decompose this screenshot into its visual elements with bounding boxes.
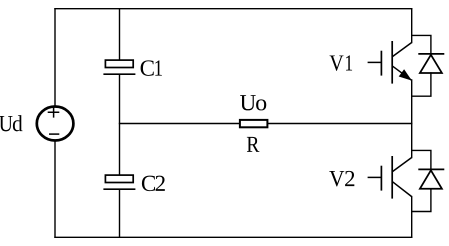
- label C1: [141, 60, 162, 75]
- capacitor C1: [103, 60, 135, 74]
- wire V1 diode branch top: [412, 35, 431, 54]
- diode of V1: [418, 54, 444, 73]
- wire V1 diode branch bottom: [412, 73, 431, 96]
- wire middle left of resistor: [120, 123, 240, 125]
- label V1: [330, 55, 353, 71]
- label Ud: [0, 115, 22, 131]
- label C2: [142, 176, 165, 191]
- transistor V2: [368, 156, 412, 199]
- label R: [247, 137, 260, 152]
- wire capacitor branch upper: [119, 9, 121, 60]
- wire left vertical lower: [54, 140, 56, 237]
- diode of V2: [418, 169, 444, 188]
- arrowhead of V1 emitter: [399, 69, 412, 80]
- wire V2 diode branch top: [412, 150, 431, 169]
- wire V2 diode branch bottom: [412, 189, 431, 212]
- wire right rail top: [411, 9, 413, 43]
- label Uo: [240, 95, 266, 110]
- transistor V1: [368, 41, 412, 84]
- wire right rail middle: [411, 80, 413, 158]
- label V2: [329, 171, 354, 187]
- wire below C2: [119, 189, 121, 237]
- capacitor C2: [103, 175, 135, 189]
- wire between C1 and C2: [119, 74, 121, 174]
- wire left vertical upper: [54, 9, 56, 107]
- wire top rail: [55, 8, 412, 10]
- voltage source Ud: [37, 107, 74, 141]
- wire right rail bottom: [411, 197, 413, 238]
- wire bottom rail: [55, 236, 412, 238]
- wire middle right of resistor: [268, 123, 411, 125]
- resistor R: [240, 120, 268, 127]
